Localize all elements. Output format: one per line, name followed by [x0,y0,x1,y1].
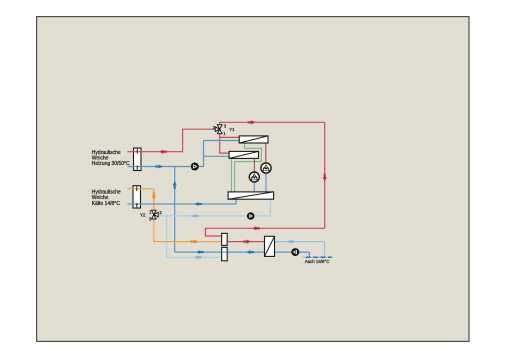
valve Y2 three-way [152,210,159,219]
wire: pale blue drop from tee to bottom [166,216,168,257]
valve Y1 three-way [215,125,222,134]
plate heat exchanger river [265,236,275,256]
svg-text:Y2: Y2 [140,213,146,218]
arrow blue left bottom return B [246,250,254,254]
drawing frame [37,17,469,342]
arrow pale right evaporator feed [192,214,200,218]
wire: red from mixer box to plate HX [227,241,264,243]
arrow red down right riser [323,174,327,182]
wire: refrigerant hot gas brown compressor2 to HX1 [265,143,267,163]
pump P3 river water [291,248,299,256]
svg-text:Aach 16/9°C: Aach 16/9°C [305,259,330,264]
wire: river suction to pump [275,251,310,253]
wire: blue branch to HX2 [204,155,230,157]
wire: pale blue up into evaporator [270,199,272,216]
wire: heating return blue stub [128,166,142,168]
wire: cold supply orange to drop [133,188,154,190]
wire: refrigerant hot gas brown compressor1 to HX2 [253,158,255,171]
compressor 2 [261,163,271,173]
wire: blue drop line to bottom circuit [174,167,176,253]
arrow blue up drop line [173,181,177,189]
arrow red right to plate HX [243,240,251,244]
wire: pale blue evaporator feed from Y2 [158,215,271,217]
wire: blue from evaporator bottom down [235,199,237,204]
wire: heating supply red to riser [141,151,183,153]
wire: heating return blue to pump and riser [141,166,204,168]
wire: pale blue bottom line to box [167,256,222,258]
svg-text:Kälte 14/8°C: Kälte 14/8°C [92,201,121,207]
wire: Y1 top port up and top header [220,122,325,125]
wire: red bottom header leftwards [205,228,324,236]
separator heating internal ticks [136,149,138,170]
river Aach water symbol [302,256,333,258]
compressor 1 [249,172,259,182]
arrow red left bottom header [252,226,260,230]
wire: red right riser down [324,122,326,228]
arrow light blue right river return [288,240,296,244]
arrow red right top header [248,120,256,124]
hydraulic separator heating (Hydraulische Weiche Heizung) [134,148,142,171]
junction box 1 (warm mixing) [222,233,228,245]
wire: refrigerant green HX1 loop to evaporator [235,143,262,192]
wire: red riser to valve level [183,129,216,152]
arrow blue left bottom return A [196,250,204,254]
wire: bottom blue return line [175,251,265,253]
pump P1 heating return [191,163,199,171]
heat exchanger HX3 evaporator [228,192,274,199]
wire: blue riser up to HX1 [204,141,240,167]
arrow blue left cold return [194,202,202,206]
svg-text:Heizung 30/50°C: Heizung 30/50°C [92,161,130,167]
wire: river light blue warm return [275,242,325,258]
wire: river suction riser [308,252,310,257]
heat exchanger HX2 subcooler [229,151,258,158]
wire: red branch to condenser HX1 [220,136,240,138]
wire: heating supply red separator stub [128,151,142,153]
wire: refrigerant suction blue compressor1 [253,182,255,192]
separator cooling internal ticks [136,186,138,207]
arrow blue right heating return [155,164,163,168]
wire: cold return blue from evaporator [133,203,236,205]
arrow orange down supply drop [152,192,156,200]
hydraulic separator cooling (Hydraulische Weiche Kaelte) [133,186,141,208]
arrow orange right bottom [190,240,198,244]
wire: refrigerant green HX2 to evaporator [231,158,233,192]
wire: cold supply orange stub [128,188,134,190]
junction box 2 (cold side) [222,247,228,260]
svg-text:Y1: Y1 [229,127,235,132]
pump P2 evaporator feed [247,212,255,220]
arrow pale left bottom [194,255,202,259]
wire: cold return blue stub [128,203,134,205]
heat exchanger HX1 condenser [239,136,268,143]
wire: orange drop through valve Y2 to bottom [154,189,222,242]
wire: refrigerant suction blue compressor2 [265,173,267,192]
wire: Y1 bottom port down to condensers [220,133,229,153]
arrow red left at heating supply [159,150,167,154]
